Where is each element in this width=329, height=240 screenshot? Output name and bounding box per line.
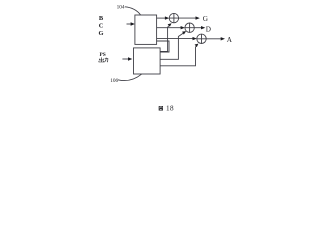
wire W3: block106 to XOR U3 bbox=[160, 46, 197, 66]
op XOR gate U2 bbox=[185, 23, 194, 32]
arrowhead output A bbox=[221, 37, 225, 40]
input wire to block 104 bbox=[127, 23, 132, 25]
input wire to block 106 bbox=[122, 58, 129, 60]
wire O2: block104 to XOR U2 bbox=[157, 27, 182, 29]
wire W2: block106 to XOR U2 bbox=[160, 33, 184, 60]
svg-text:18: 18 bbox=[166, 105, 174, 113]
block 104 bbox=[135, 15, 157, 44]
leader line to 106 bbox=[118, 74, 142, 80]
op XOR gate U3 bbox=[197, 34, 206, 43]
op XOR gate U1 bbox=[169, 13, 178, 22]
arrowhead W1 into XOR U1 bottom bbox=[168, 23, 172, 26]
wire XOR U3 output to A bbox=[206, 38, 222, 40]
svg-text:G: G bbox=[203, 15, 208, 23]
wire XOR U2 output to D bbox=[194, 27, 202, 29]
arrowhead into block 104 bbox=[131, 22, 135, 25]
svg-text:104: 104 bbox=[117, 5, 125, 11]
svg-text:B: B bbox=[99, 15, 104, 22]
arrowhead output D bbox=[201, 26, 205, 29]
arrowhead into block 106 bbox=[128, 57, 132, 60]
wire W1: block106 to XOR U1 bbox=[160, 24, 171, 51]
arrowhead output G bbox=[196, 16, 200, 19]
svg-text:D: D bbox=[206, 26, 211, 34]
leader line to 104 bbox=[125, 7, 141, 15]
svg-text:106: 106 bbox=[110, 78, 118, 84]
wire O3: block104 to XOR U3 bbox=[157, 38, 194, 40]
wire O1: block104 to XOR U1 bbox=[157, 17, 167, 19]
arrowhead into XOR U3 left bbox=[193, 37, 197, 40]
svg-text:G: G bbox=[99, 30, 104, 37]
wire O4: block104 feedback to block106 bbox=[157, 41, 169, 52]
label kanji 力 (ryoku) bbox=[104, 58, 108, 63]
arrowhead into XOR U1 left bbox=[165, 16, 169, 19]
caption kanji 図 (fig) bbox=[159, 106, 163, 110]
svg-text:C: C bbox=[99, 23, 104, 30]
arrowhead into XOR U2 left bbox=[181, 26, 185, 29]
block 106 bbox=[134, 48, 161, 74]
svg-text:PS: PS bbox=[99, 52, 105, 58]
label kanji 出 (shutsu) bbox=[99, 57, 104, 62]
svg-text:A: A bbox=[227, 36, 233, 44]
arrowhead W3 into XOR U3 bottom bbox=[195, 44, 199, 48]
wire XOR U1 output to G bbox=[179, 17, 197, 19]
arrowhead W2 into XOR U2 bottom bbox=[182, 31, 186, 34]
